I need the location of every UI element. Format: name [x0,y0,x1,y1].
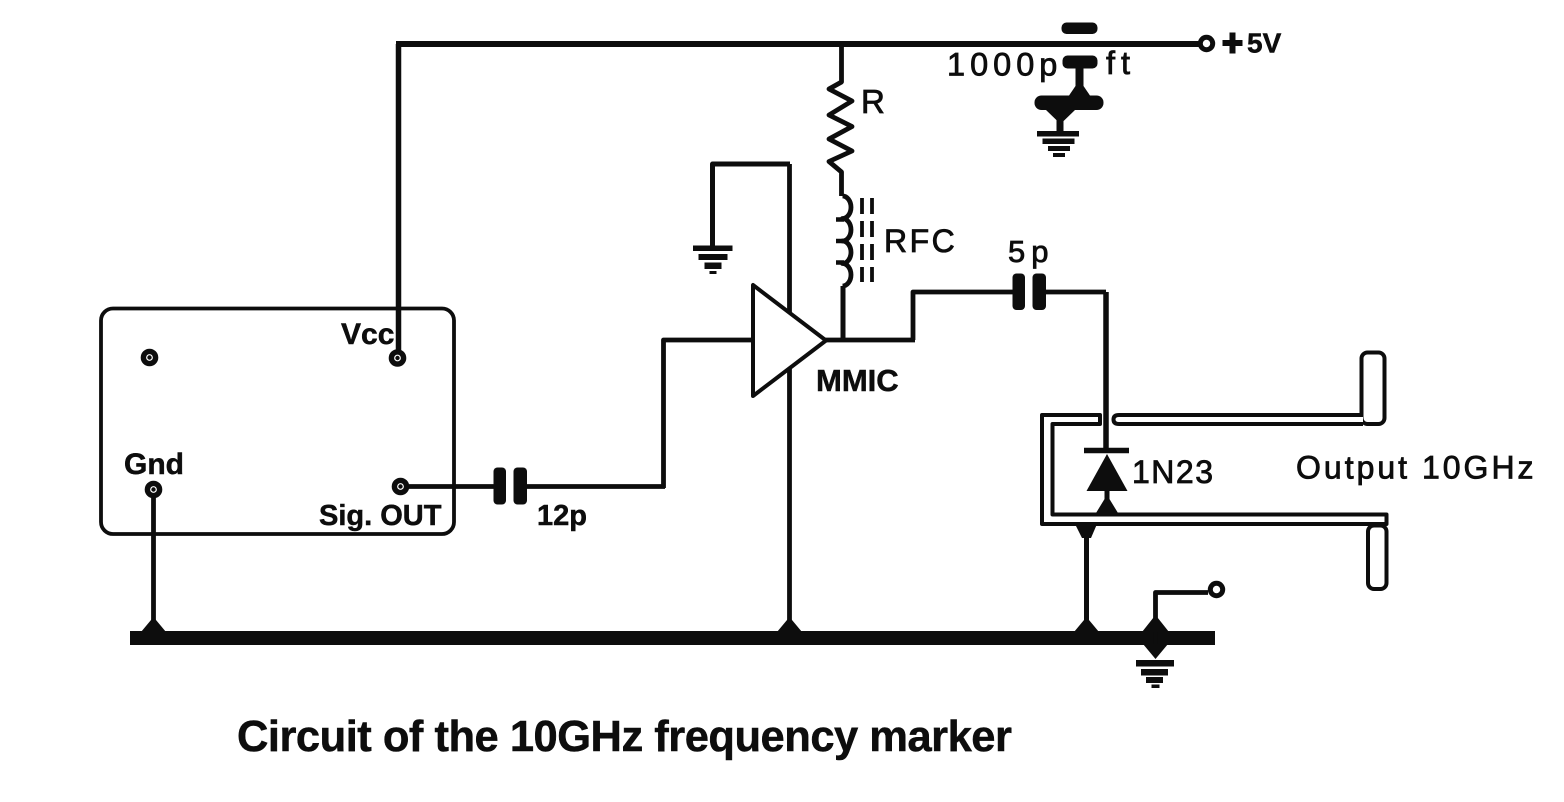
svg-text:1000p: 1000p [947,47,1062,83]
svg-text:12p: 12p [537,500,587,532]
svg-text:Vcc: Vcc [341,318,394,351]
svg-text:Circuit of the 10GHz frequency: Circuit of the 10GHz frequency marker [237,713,1012,761]
svg-text:1N23: 1N23 [1132,454,1215,490]
svg-text:5V: 5V [1247,28,1282,59]
svg-text:Sig. OUT: Sig. OUT [319,500,442,532]
svg-text:MMIC: MMIC [816,363,899,398]
svg-text:ft: ft [1106,45,1136,81]
svg-text:Output 10GHz: Output 10GHz [1296,450,1537,486]
svg-text:5p: 5p [1008,234,1054,269]
svg-text:R: R [861,83,885,120]
svg-text:RFC: RFC [884,223,957,259]
svg-text:Gnd: Gnd [124,448,184,481]
